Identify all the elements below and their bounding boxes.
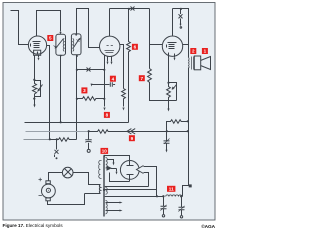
label 3 [81, 87, 87, 93]
tuned circuit T2 (variable inductor with capacitor) [71, 34, 81, 55]
label 1 [202, 48, 208, 54]
label 10 [101, 148, 109, 154]
label 7 [139, 75, 145, 81]
arrow: lead into tank T1 [59, 32, 61, 35]
generator G with terminals [46, 181, 50, 184]
label 6 [132, 44, 138, 50]
vacuum tube V2 (detector) [100, 36, 120, 56]
variable capacitor: below bus L2 [166, 130, 168, 132]
inductor 11 (filter choke) on B- line [105, 196, 164, 198]
svg-text:6: 6 [134, 45, 137, 50]
wire: V1 base leads [35, 56, 39, 80]
svg-text:8: 8 [106, 113, 109, 118]
arrow: winding tap triangle [107, 166, 113, 171]
wire: V2 plate down [120, 45, 124, 89]
wire: down to V3 grid and R7 [149, 9, 151, 69]
inductor: transformer HV winding [106, 158, 108, 168]
wire: V1 plate down to bus L3 [47, 46, 50, 140]
resistor 3 (cathode resistor) [103, 98, 105, 100]
switch: X symbol below L3 [53, 140, 59, 158]
resistor: B+ dropping, to rail [167, 120, 188, 132]
wire: top coupling line [110, 8, 150, 10]
jack symbol 9 (double chevron) [127, 129, 135, 134]
svg-text:11: 11 [169, 187, 174, 192]
capacitor with pickup terminal circle [85, 132, 91, 150]
wire: bus B1 [25, 122, 129, 124]
tuned circuit T1 (variable inductor with capacitor) [56, 34, 66, 55]
wire: bus L2 with resistor [26, 131, 89, 133]
wire: V1 top cap to tank T1 [37, 11, 61, 37]
resistor: V2 plate load with ground arrow [122, 89, 126, 107]
svg-text:9: 9 [131, 136, 134, 141]
wire: T2 lead corner to L3 [73, 139, 77, 141]
label 4 [110, 76, 116, 82]
resistor: V1 cathode bias [33, 80, 37, 97]
arrows: filament taps [106, 203, 120, 211]
loudspeaker with output transformer (symbols 1 and 2) [188, 58, 191, 69]
svg-text:5: 5 [49, 36, 52, 41]
resistor 6 [127, 9, 131, 123]
lamp (circle with X) [62, 167, 73, 178]
svg-text:3: 3 [83, 88, 86, 93]
arrow: tap lead down [116, 169, 118, 172]
wire: V4 cathode lead to winding [110, 173, 130, 182]
svg-text:4: 4 [112, 76, 115, 81]
vacuum tube V3 (output) [162, 36, 182, 56]
capacitor: filter 2 with terminal [179, 197, 185, 216]
wire: antenna stub to V1 grid [11, 11, 29, 45]
capacitor: cathode bypass (X symbol) [87, 68, 91, 72]
polarity marks + and - [39, 178, 42, 196]
wire: T2 bottom down to bus L3 [76, 55, 78, 140]
trimmer capacitor: top right with arrow [173, 9, 189, 58]
resistor 7 (grid leak) [148, 69, 177, 101]
inductor: transformer mid winding [106, 188, 108, 195]
potentiometer: volume control with wiper arrow [167, 82, 169, 84]
inductor: transformer primary winding [85, 185, 101, 194]
vacuum tube V4 (rectifier with notch) [120, 161, 139, 180]
inductor: transformer left winding [99, 160, 102, 178]
arrow: HV tap [108, 160, 114, 163]
label 11 [167, 186, 175, 192]
inductor: transformer filament winding [106, 201, 108, 215]
wire: V3 plate to B+ rail [183, 44, 189, 46]
wire: T1 bottom to bus B1 [60, 56, 62, 123]
power transformer 10 core [104, 156, 105, 217]
svg-text:7: 7 [141, 76, 144, 81]
capacitor: filter 1 with terminal [161, 197, 167, 215]
wire: V2 cathode lead [104, 55, 106, 70]
svg-text:2: 2 [192, 49, 195, 54]
label 5 [47, 35, 53, 41]
node: V1 cathode junction [33, 79, 35, 81]
label 8 [104, 112, 110, 118]
red numbered labels [47, 35, 208, 192]
wire: bus L3 with resistor [24, 139, 51, 141]
label 2 [190, 48, 196, 54]
svg-text:1: 1 [204, 49, 207, 54]
capacitor 4 with arrow [92, 82, 116, 86]
label 9 [129, 135, 135, 141]
wire: lamp to transformer primary [73, 173, 101, 185]
arrows: V3 heater leads [169, 53, 175, 83]
arrow: variable adjustment [38, 85, 43, 92]
svg-text:10: 10 [102, 149, 108, 154]
wire: T2 top over to V2 grid [77, 9, 100, 48]
vacuum tube V1 (triode, symbol 5) [28, 36, 46, 54]
node: V2 cathode network junctions [103, 69, 105, 71]
ground arrow: bias return [33, 105, 35, 108]
wire: variable bias loop [35, 81, 41, 97]
node: bias network bottom [33, 98, 35, 100]
capacitor: coupling (X symbol) [131, 7, 135, 11]
wire: rectifier output loops [144, 167, 157, 197]
arrows: V2 heater leads [108, 57, 112, 62]
